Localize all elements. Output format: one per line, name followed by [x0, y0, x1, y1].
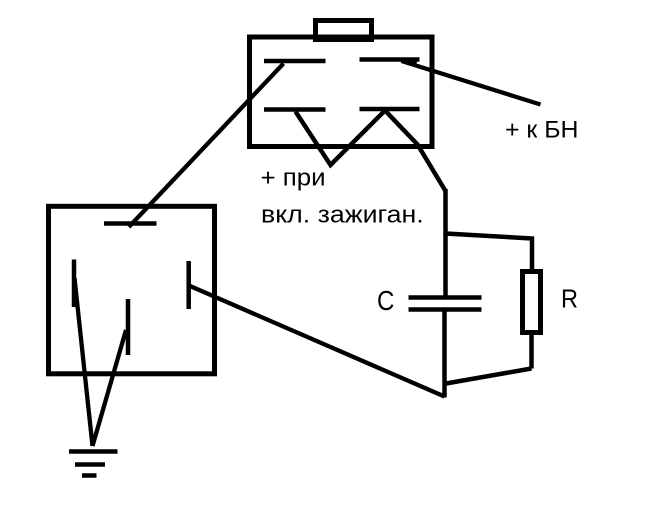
svg-text:R: R — [561, 284, 578, 314]
connector tab on top of K1 — [316, 21, 372, 40]
pin contact: K1 bottom-right — [360, 107, 420, 112]
capacitor C plates — [409, 298, 482, 310]
switch box S1 (left box) — [49, 206, 215, 373]
contact bar: S1 top — [104, 221, 157, 226]
svg-text:+ к БН: + к БН — [505, 116, 579, 143]
relay connector block K1 (top box) — [250, 37, 433, 147]
contact pin: S1 left — [72, 260, 77, 308]
wire: branch from vertical to resistor top — [446, 234, 533, 272]
contact pin: S1 right — [186, 261, 191, 309]
svg-text:вкл. зажиган.: вкл. зажиган. — [261, 201, 424, 228]
wire: vertical drop to capacitor node — [443, 189, 448, 298]
pin contact: K1 top-right — [360, 57, 420, 62]
wire: S1 left pin to ground (left leg of V) — [75, 278, 93, 446]
wire: resistor bottom lead — [529, 334, 534, 369]
resistor R body — [523, 272, 541, 333]
wire: S1 middle pin to ground (right leg of V) — [93, 330, 127, 446]
arrowhead: +BN feed pointing at K1 top-right contact — [400, 58, 419, 66]
wire: capacitor bottom to junction — [442, 309, 447, 398]
wire: S1 right pin to bottom junction — [190, 286, 445, 397]
wire: K1 top-left contact to switch S1 top contact — [129, 64, 284, 228]
wire: +BN feed line — [402, 61, 541, 105]
svg-text:+ при: + при — [261, 165, 326, 192]
pin contact: K1 bottom-left — [264, 107, 326, 112]
contact pin: S1 middle — [126, 299, 131, 355]
ground symbol — [69, 452, 118, 476]
pin contact: K1 top-left — [264, 59, 326, 64]
wire: bottom return from resistor to junction — [446, 369, 532, 384]
svg-text:C: C — [377, 285, 394, 316]
wire: K1 bottom-left contact zigzag down (+ignition feed) — [296, 111, 446, 192]
